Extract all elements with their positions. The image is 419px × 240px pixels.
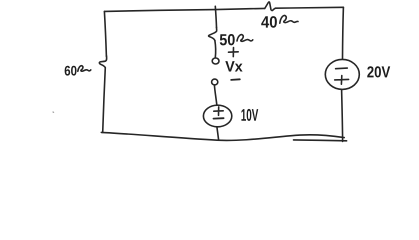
V1 polarity plus bbox=[214, 107, 223, 115]
label Vx bbox=[225, 61, 242, 71]
wire right upper bbox=[342, 7, 345, 59]
wire 10V source to bottom wire bbox=[217, 127, 219, 140]
omega glyph of 60ohm label bbox=[78, 66, 91, 72]
label + (Vx polarity) bbox=[229, 48, 239, 57]
resistor 60ohm tick on left wire bbox=[99, 56, 106, 68]
omega glyph of 50ohm label bbox=[237, 35, 253, 42]
V2 polarity minus bbox=[336, 67, 348, 70]
omega glyph of 40ohm label bbox=[280, 16, 298, 24]
label 60 (of 60ohm) bbox=[65, 66, 77, 76]
resistor 50ohm tick on middle branch bbox=[209, 27, 217, 40]
wire terminal b to 10V source bbox=[214, 85, 216, 105]
resistor 40ohm break symbol on top wire bbox=[265, 2, 276, 11]
voltage source V2 circle (20V) bbox=[325, 59, 359, 89]
wire middle branch to terminal a bbox=[214, 41, 217, 58]
wire right lower bbox=[342, 90, 343, 142]
terminal node a (open circle, + side of Vx) bbox=[212, 58, 219, 64]
label 50 (of 50ohm) bbox=[220, 34, 235, 45]
wire left lower bbox=[103, 68, 106, 133]
label - (Vx polarity) bbox=[231, 78, 240, 81]
wire top-left segment bbox=[105, 10, 216, 12]
wire bottom bbox=[101, 132, 344, 140]
wire left upper bbox=[104, 11, 106, 56]
label 20V bbox=[367, 66, 390, 77]
terminal node b (open circle, - side of Vx) bbox=[212, 79, 218, 85]
V2 polarity plus bbox=[335, 76, 349, 85]
stray pencil speck bbox=[52, 111, 55, 113]
wire top-right segment A bbox=[215, 8, 265, 9]
wire bottom retrace stroke near right corner bbox=[294, 139, 347, 142]
voltage source V1 circle (10V) bbox=[203, 105, 231, 127]
wire top-right segment B bbox=[276, 6, 344, 9]
V1 polarity minus bbox=[214, 117, 224, 119]
label 40 (of 40ohm) bbox=[261, 16, 277, 28]
label 10V bbox=[241, 109, 258, 121]
wire middle branch upper (overshoot above top wire) bbox=[215, 6, 216, 27]
